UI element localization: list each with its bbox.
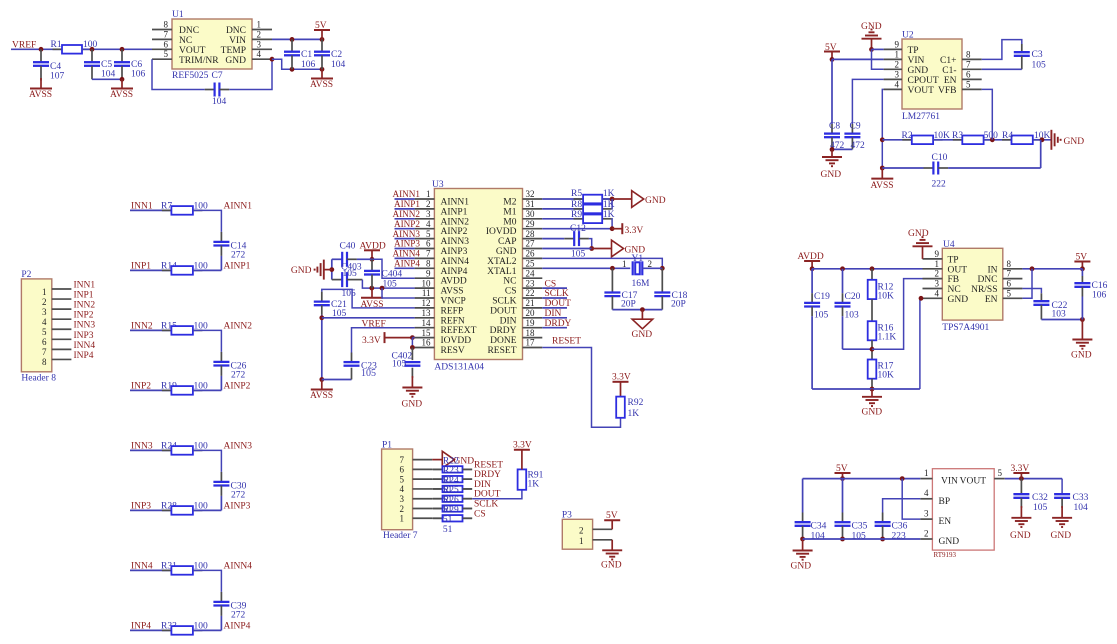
P1 pin 5	[400, 474, 433, 484]
svg-text:1: 1	[400, 514, 405, 524]
power port GND below C16	[1071, 320, 1092, 361]
svg-text:6: 6	[966, 69, 971, 79]
svg-text:9: 9	[935, 249, 940, 259]
svg-text:DNC: DNC	[977, 275, 997, 285]
resistor R29 body	[432, 515, 472, 521]
capacitor C30 272	[213, 481, 246, 500]
net label AINP3 text	[224, 501, 251, 511]
svg-text:AVSS: AVSS	[871, 181, 894, 191]
power port GND arrow at M2	[612, 191, 666, 208]
svg-text:RT9193: RT9193	[934, 551, 957, 559]
svg-text:AINP4: AINP4	[224, 621, 251, 631]
power port GND below C32	[1010, 506, 1031, 541]
resistor R24 100	[161, 441, 208, 454]
power port 3.3V at RT9193	[1011, 464, 1030, 479]
capacitor C404 105	[364, 259, 402, 289]
resistor R8 1K	[571, 200, 615, 213]
wire 5V rail to RT9193 VIN	[803, 476, 921, 481]
RT9193 left pins 1 4 3 2	[920, 468, 932, 539]
P2 pin 7	[42, 347, 71, 357]
svg-text:INN4: INN4	[74, 341, 96, 351]
capacitor C403 105	[332, 262, 362, 299]
svg-text:AINP2: AINP2	[224, 381, 251, 391]
svg-text:DOUT: DOUT	[490, 306, 517, 316]
svg-text:AVSS: AVSS	[310, 80, 333, 90]
svg-text:272: 272	[231, 250, 246, 260]
svg-text:C6: C6	[131, 60, 142, 70]
power port 3.3V at U3 IOVDD	[362, 332, 415, 346]
svg-text:16: 16	[422, 338, 432, 348]
power port AVSS bottom left	[310, 380, 333, 402]
svg-text:DRDY: DRDY	[545, 319, 572, 329]
svg-text:272: 272	[231, 490, 246, 500]
svg-text:DRDY: DRDY	[474, 470, 501, 480]
svg-text:R25: R25	[443, 486, 459, 496]
net label AINN4	[224, 561, 253, 571]
svg-text:4: 4	[257, 49, 262, 59]
resistor R92 1K	[616, 397, 643, 419]
svg-text:GND: GND	[402, 400, 423, 410]
resistor R9 1K	[571, 210, 615, 223]
svg-text:6: 6	[1007, 279, 1012, 289]
net label INN4	[131, 561, 153, 571]
svg-text:26: 26	[526, 249, 536, 259]
svg-text:C10: C10	[932, 153, 948, 163]
wire R24 to node AINN3	[193, 450, 222, 482]
svg-text:24: 24	[526, 268, 536, 278]
svg-text:107: 107	[50, 72, 65, 82]
svg-text:GND: GND	[862, 408, 883, 418]
resistor R29 label and value 51	[443, 505, 459, 535]
wire INP1 to R14	[130, 269, 171, 271]
svg-text:AINN4: AINN4	[392, 249, 420, 259]
svg-text:INP4: INP4	[74, 351, 94, 361]
svg-text:106: 106	[301, 60, 316, 70]
svg-text:GND: GND	[645, 196, 666, 206]
wire 5V to U2 pin1 VIN	[832, 58, 884, 60]
capacitor C32 105	[1013, 479, 1048, 513]
svg-text:TPS7A4901: TPS7A4901	[942, 323, 989, 333]
svg-text:3: 3	[935, 279, 940, 289]
svg-text:AINN3: AINN3	[224, 441, 253, 451]
svg-text:AINP4: AINP4	[394, 259, 420, 269]
wire R17 to GND rail	[870, 379, 875, 392]
svg-text:GND: GND	[821, 170, 842, 180]
svg-text:106: 106	[1092, 291, 1107, 301]
svg-text:23: 23	[526, 278, 536, 288]
net label RESET at P1	[474, 460, 503, 470]
wire INN3 to R24	[130, 449, 171, 451]
wire U3 pin26 XTAL2 to crystal	[542, 258, 664, 270]
svg-text:1K: 1K	[528, 480, 540, 490]
power port GND below crystal	[632, 310, 653, 340]
net label INP2 at P2	[74, 311, 94, 321]
wire C12 down to GND row	[579, 239, 594, 251]
wire INN1 to R7	[130, 209, 171, 211]
wire U3 pin30 M0 to R9	[542, 218, 583, 220]
power port AVDD above C404	[360, 242, 386, 262]
P2 pin 6	[42, 337, 71, 347]
capacitor C16 106	[1074, 269, 1107, 320]
svg-text:C9: C9	[850, 122, 861, 132]
power port GND above U4	[908, 229, 933, 259]
wire U3 pin17 RESET to R92	[542, 348, 620, 428]
power port GND below divider	[862, 389, 883, 418]
svg-text:TP: TP	[948, 256, 959, 266]
svg-text:7: 7	[426, 249, 431, 259]
svg-text:LM27761: LM27761	[902, 112, 940, 122]
svg-text:3: 3	[924, 509, 929, 519]
svg-text:R22: R22	[443, 456, 459, 466]
svg-text:RESET: RESET	[552, 336, 581, 346]
svg-text:GND: GND	[632, 330, 653, 340]
wire C30 to node AINP3	[220, 486, 222, 511]
wire U3 pin13 REFN	[322, 317, 415, 319]
capacitor C20 103	[835, 269, 861, 349]
wire R8 up to GND node	[611, 199, 613, 209]
wire U3 pin12 REFP to C21	[322, 289, 415, 308]
net label INP2	[131, 381, 151, 391]
svg-text:NC: NC	[503, 277, 516, 287]
svg-text:104: 104	[212, 97, 227, 107]
svg-text:FB: FB	[948, 275, 960, 285]
wire SCLK stub at U3	[542, 297, 567, 299]
wire C3 to U2 pin7 C1-	[982, 68, 1022, 70]
svg-text:6: 6	[42, 337, 47, 347]
svg-text:1.1K: 1.1K	[878, 333, 897, 343]
svg-text:21: 21	[526, 298, 535, 308]
svg-text:CS: CS	[474, 509, 486, 519]
svg-text:13: 13	[422, 308, 432, 318]
net label INP3	[131, 501, 151, 511]
svg-text:3.3V: 3.3V	[362, 336, 381, 346]
svg-text:C16: C16	[1092, 281, 1108, 291]
svg-text:GND: GND	[861, 22, 882, 32]
svg-text:3.3V: 3.3V	[625, 226, 644, 236]
resistor R2 10K	[882, 131, 950, 144]
svg-text:AINP1: AINP1	[441, 207, 468, 217]
capacitor C34 104	[795, 479, 827, 542]
IC U2 LM27761 body	[902, 31, 962, 123]
wire U4 pin6 NR/SS to C22	[1022, 289, 1041, 302]
wire C26 to node AINP2	[220, 366, 222, 391]
svg-text:104: 104	[101, 70, 116, 80]
net label INP1	[131, 261, 151, 271]
wire U4 pin4 GND down	[919, 296, 924, 389]
power port 5V at P3	[604, 511, 620, 529]
svg-text:Header 7: Header 7	[383, 531, 418, 541]
power port GND left of C403	[291, 260, 332, 280]
svg-text:CAP: CAP	[498, 237, 516, 247]
junction GND/TP	[869, 47, 874, 52]
svg-text:VOUT: VOUT	[179, 46, 206, 56]
P2 pin 3	[42, 307, 71, 317]
power port GND below C8	[821, 149, 843, 180]
wire GND to U2 pin9 TP	[872, 48, 884, 50]
svg-text:2: 2	[895, 59, 900, 69]
svg-text:105: 105	[361, 368, 376, 379]
net label INP3 at P2	[74, 331, 94, 341]
svg-text:4: 4	[426, 219, 431, 229]
U1 right pins 1 2 3 4	[252, 20, 272, 60]
svg-text:DNC: DNC	[226, 26, 246, 36]
net label INN1 at P2	[74, 281, 96, 291]
svg-text:20P: 20P	[671, 300, 686, 310]
P1 pin 6	[400, 465, 433, 475]
wire C10 up to R4 output node	[1040, 140, 1042, 168]
svg-text:AINN2: AINN2	[224, 321, 253, 331]
svg-text:106: 106	[131, 70, 146, 80]
wire net AINP3 stub at U3 pin 6	[395, 248, 415, 250]
svg-text:AINP2: AINP2	[441, 227, 468, 237]
svg-text:1K: 1K	[603, 200, 615, 210]
wire VREF to R1	[11, 48, 62, 50]
svg-text:VIN: VIN	[908, 56, 925, 66]
net label AINN3 at U3	[392, 229, 420, 239]
svg-text:CS: CS	[545, 279, 557, 289]
P3 pin 1	[579, 536, 612, 546]
capacitor C33 104	[1054, 493, 1088, 513]
wire C9 bottom to C8 bottom	[830, 147, 853, 152]
svg-text:105: 105	[814, 311, 829, 321]
svg-text:51: 51	[443, 525, 453, 535]
net label AINP4 text	[224, 621, 251, 631]
wire crystal caps ground rail	[612, 307, 662, 312]
svg-text:4: 4	[935, 288, 940, 298]
svg-text:6: 6	[164, 39, 169, 49]
wire U3 pin14 REFEXT VREF to C23	[352, 328, 415, 363]
net label AINN4 at U3	[392, 249, 420, 259]
U3 pin names	[441, 198, 517, 357]
svg-text:103: 103	[845, 311, 860, 321]
net label SCLK at U3	[545, 289, 569, 299]
svg-text:1: 1	[257, 20, 262, 30]
capacitor C9 472	[844, 122, 865, 152]
svg-text:DOUT: DOUT	[545, 299, 572, 309]
P1 pin 7	[400, 455, 433, 465]
resistor R14 100	[161, 261, 208, 274]
svg-text:AINP3: AINP3	[224, 501, 251, 511]
svg-text:EN: EN	[985, 295, 998, 305]
wire RT9193 VOUT to 3.3V	[1005, 476, 1062, 481]
wire net AINP4 stub at U3 pin 8	[395, 267, 415, 269]
resistor R26 body	[432, 505, 472, 511]
wire AVDD rail to U4 pin1 OUT	[812, 266, 922, 271]
connector P1 Header 7 body	[382, 441, 418, 541]
svg-text:GND: GND	[908, 66, 929, 76]
svg-text:XTAL2: XTAL2	[487, 257, 517, 267]
svg-text:VOUT: VOUT	[908, 86, 935, 96]
power port GND arrow at P1	[442, 451, 474, 468]
svg-text:472: 472	[851, 141, 866, 151]
svg-text:SCLK: SCLK	[545, 289, 569, 299]
wire C22 to GND node	[1041, 317, 1084, 322]
svg-text:VIN: VIN	[941, 477, 958, 487]
wire EN to 5V rail	[902, 479, 920, 519]
capacitor C7 104	[212, 71, 227, 107]
net label DRDY at P1	[474, 470, 501, 480]
svg-text:20: 20	[526, 308, 536, 318]
svg-text:18: 18	[526, 328, 536, 338]
U2 right pins 8 7 6 5	[962, 49, 982, 89]
svg-text:C404: C404	[382, 269, 403, 279]
svg-text:OUT: OUT	[948, 265, 968, 275]
wire R15 to node AINN2	[193, 330, 222, 362]
resistor R24 label and value 51	[443, 476, 459, 506]
svg-text:3: 3	[895, 69, 900, 79]
svg-text:272: 272	[231, 370, 246, 380]
RT9193 right pin 5	[994, 468, 1005, 479]
svg-text:GND: GND	[791, 562, 812, 572]
svg-text:AINN4: AINN4	[224, 561, 253, 571]
U3 left pins 1-16	[415, 189, 435, 348]
svg-text:7: 7	[42, 347, 47, 357]
wire U3 pin32 M2 to R5	[542, 198, 583, 200]
svg-text:8: 8	[966, 49, 971, 59]
wire INN4 to R31	[130, 569, 171, 571]
capacitor C40	[332, 242, 372, 267]
RT9193 pin names	[939, 477, 987, 548]
svg-text:AVSS: AVSS	[110, 90, 133, 100]
wire net AINN1 stub at U3 pin 1	[395, 198, 415, 200]
wire R14 to node AINP1	[193, 269, 222, 271]
svg-text:103: 103	[1052, 310, 1067, 320]
svg-text:GND: GND	[1071, 351, 1092, 361]
svg-text:3: 3	[42, 307, 47, 317]
svg-text:RESET: RESET	[474, 460, 503, 470]
svg-text:AINN2: AINN2	[392, 209, 420, 219]
svg-text:105: 105	[343, 269, 358, 279]
wire DIN stub at U3	[542, 317, 567, 319]
U1 pin names	[179, 26, 246, 66]
wire R7 to node AINN1	[193, 210, 222, 242]
svg-text:104: 104	[1074, 503, 1089, 513]
svg-text:104: 104	[331, 60, 346, 70]
P2 pin 8	[42, 357, 71, 367]
U3 right pins 32-17	[523, 189, 543, 348]
svg-text:223: 223	[892, 532, 907, 542]
svg-text:INP3: INP3	[74, 331, 94, 341]
P1 pin 2	[400, 504, 433, 514]
wire R1 to U1 pin 6	[82, 47, 152, 52]
svg-text:DONE: DONE	[490, 336, 517, 346]
svg-text:14: 14	[422, 318, 432, 328]
svg-text:GND: GND	[908, 229, 929, 239]
svg-text:2: 2	[648, 259, 653, 269]
svg-text:27: 27	[526, 239, 536, 249]
svg-text:DIN: DIN	[545, 309, 562, 319]
svg-text:51: 51	[443, 515, 453, 525]
svg-text:GND: GND	[1010, 531, 1031, 541]
capacitor C17 20P	[604, 268, 637, 309]
wire C39 to node AINP4	[220, 606, 222, 631]
svg-text:NC: NC	[179, 36, 192, 46]
svg-text:C20: C20	[845, 292, 861, 302]
svg-text:C5: C5	[101, 60, 112, 70]
resistor R19 100	[161, 381, 208, 394]
svg-text:R29: R29	[443, 505, 459, 515]
wire R28 to node AINP3	[193, 509, 222, 511]
svg-text:19: 19	[526, 318, 536, 328]
svg-text:104: 104	[811, 532, 826, 542]
capacitor C19 105	[804, 269, 830, 389]
svg-text:XTAL1: XTAL1	[487, 267, 517, 277]
svg-text:11: 11	[422, 288, 431, 298]
svg-text:P2: P2	[21, 270, 31, 280]
IC RT9193 body	[932, 469, 994, 559]
IC U4 TPS7A4901 body	[942, 240, 1003, 333]
power port GND at P3	[601, 540, 622, 571]
wire R9 down to 3.3V node	[611, 219, 613, 229]
connector P2 Header 8 body	[21, 270, 56, 384]
power port AVSS below C4	[29, 78, 52, 100]
wire C7 to U1 pin4 GND	[219, 57, 274, 90]
svg-text:P1: P1	[382, 441, 392, 451]
svg-text:C36: C36	[892, 522, 908, 532]
net label AINN2 at U3	[392, 209, 420, 219]
svg-text:7: 7	[966, 59, 971, 69]
svg-text:VIN: VIN	[229, 36, 246, 46]
wire DOUT to R91	[472, 490, 522, 499]
net label VREF at U3	[362, 320, 386, 330]
svg-text:REFEXT: REFEXT	[441, 326, 477, 336]
svg-text:5: 5	[42, 327, 47, 337]
wire U2 pin4 VOUT down	[880, 89, 885, 170]
capacitor C3 105	[1014, 50, 1046, 71]
svg-text:AINN4: AINN4	[441, 257, 470, 267]
svg-text:R26: R26	[443, 496, 459, 506]
wire U2 pin8 C1+ to C3	[982, 40, 1022, 60]
svg-text:C7: C7	[212, 71, 223, 81]
capacitor C21 105	[314, 300, 347, 319]
P2 pin 1	[42, 287, 71, 297]
resistor R23 label and value 51	[443, 466, 459, 496]
resistor R4 10K	[1002, 131, 1051, 144]
svg-text:1: 1	[924, 468, 929, 478]
wire AVSS rail to C23	[322, 379, 352, 381]
wire U3 pin25 XTAL1 to crystal	[542, 266, 630, 271]
svg-text:AVSS: AVSS	[310, 391, 333, 401]
svg-text:M1: M1	[503, 207, 516, 217]
resistor R26 label and value 51	[443, 496, 459, 526]
svg-text:R24: R24	[443, 476, 459, 486]
power port AVSS below C404	[361, 288, 384, 310]
svg-text:17: 17	[526, 338, 536, 348]
svg-text:C33: C33	[1073, 493, 1089, 503]
wire DOUT stub at U3	[542, 307, 567, 309]
svg-text:INP1: INP1	[74, 291, 94, 301]
U2 left pins 9 1 2 3 4	[884, 39, 902, 89]
wire CS stub at U3	[542, 287, 567, 289]
svg-text:AINP3: AINP3	[394, 239, 420, 249]
svg-text:22: 22	[526, 288, 535, 298]
power port GND below C34	[791, 539, 813, 572]
svg-text:IOVDD: IOVDD	[441, 336, 472, 346]
svg-text:C34: C34	[811, 522, 827, 532]
power port AVSS below C6	[110, 79, 133, 100]
net label AINP2 at U3	[394, 219, 420, 229]
svg-text:C8: C8	[829, 122, 840, 132]
wire U4 pin8 IN to 5V	[1022, 266, 1082, 271]
svg-text:AINN1: AINN1	[441, 198, 470, 208]
svg-text:R5: R5	[571, 189, 582, 199]
wire left AVDD filter node	[329, 259, 334, 279]
svg-text:AVSS: AVSS	[441, 287, 464, 297]
wire net AINN4 stub at U3 pin 7	[395, 257, 415, 259]
net label AINN3	[224, 441, 253, 451]
capacitor C22 103	[1033, 301, 1067, 320]
svg-text:C19: C19	[814, 292, 830, 302]
